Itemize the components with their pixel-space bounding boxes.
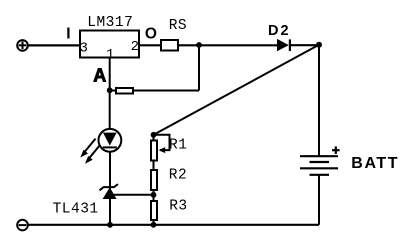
resistor RS — [161, 40, 178, 51]
wire node A to LED — [109, 90, 111, 129]
wire output junction down — [198, 45, 200, 91]
wire R1 to R2 — [153, 161, 155, 172]
regulator U1 LM317 body — [80, 31, 139, 58]
potentiometer R1 — [151, 135, 170, 161]
wire R3 to bottom rail — [153, 221, 155, 226]
svg-text:O: O — [145, 25, 157, 42]
wire diagonal junction to R1 — [154, 45, 320, 135]
wire battery junction down to battery — [318, 45, 320, 156]
wire LM317 pin2 to RS — [139, 44, 161, 46]
svg-text:2: 2 — [131, 39, 139, 55]
svg-text:RS: RS — [169, 18, 187, 34]
svg-text:I: I — [66, 25, 70, 42]
wire LM317 pin1 to node A — [109, 58, 111, 91]
LED D1 — [99, 129, 122, 152]
node LED TL431 bottom — [107, 222, 113, 228]
svg-text:D2: D2 — [268, 23, 291, 39]
shunt regulator TL431 — [100, 184, 119, 199]
svg-text:R3: R3 — [169, 199, 187, 215]
wire bottom rail — [28, 224, 319, 226]
svg-text:R2: R2 — [169, 168, 187, 184]
node R3 bottom — [151, 222, 157, 228]
svg-text:R1: R1 — [169, 137, 187, 153]
wire TL431 to bottom rail — [109, 198, 111, 225]
wire D2 to battery junction — [290, 44, 319, 46]
diode D2 — [277, 39, 290, 51]
svg-text:3: 3 — [80, 40, 88, 56]
terminal output - — [17, 220, 28, 231]
wire R2 to junction to R3 — [153, 190, 155, 202]
battery BATT — [300, 156, 338, 175]
svg-text:LM317: LM317 — [87, 15, 133, 31]
node R2 R3 junction — [151, 192, 157, 198]
label battery plus — [332, 146, 340, 154]
svg-text:A: A — [93, 65, 106, 85]
svg-text:BATT: BATT — [351, 155, 399, 172]
terminal input + — [17, 40, 28, 51]
wire battery negative down — [318, 175, 320, 225]
resistor R2 — [151, 170, 157, 190]
wire input to LM317 pin3 — [28, 44, 80, 46]
wire adjust resistor to node A — [108, 90, 116, 92]
wire node to R1 — [153, 135, 155, 141]
LED light arrow 2 — [85, 145, 100, 164]
wire to adjust resistor — [133, 90, 199, 92]
wire RS to D2 — [179, 44, 278, 46]
wire TL431 cathode to R2 R3 junction — [111, 194, 154, 196]
node A junction — [107, 87, 113, 93]
svg-text:TL431: TL431 — [53, 201, 99, 217]
resistor R3 — [151, 201, 157, 220]
wire LED to TL431 — [109, 152, 111, 189]
node R1 top junction — [151, 132, 157, 138]
LED light arrow 1 — [80, 139, 95, 158]
node output junction — [196, 42, 202, 48]
node battery top junction — [316, 42, 322, 48]
resistor R adjust — [116, 88, 133, 94]
